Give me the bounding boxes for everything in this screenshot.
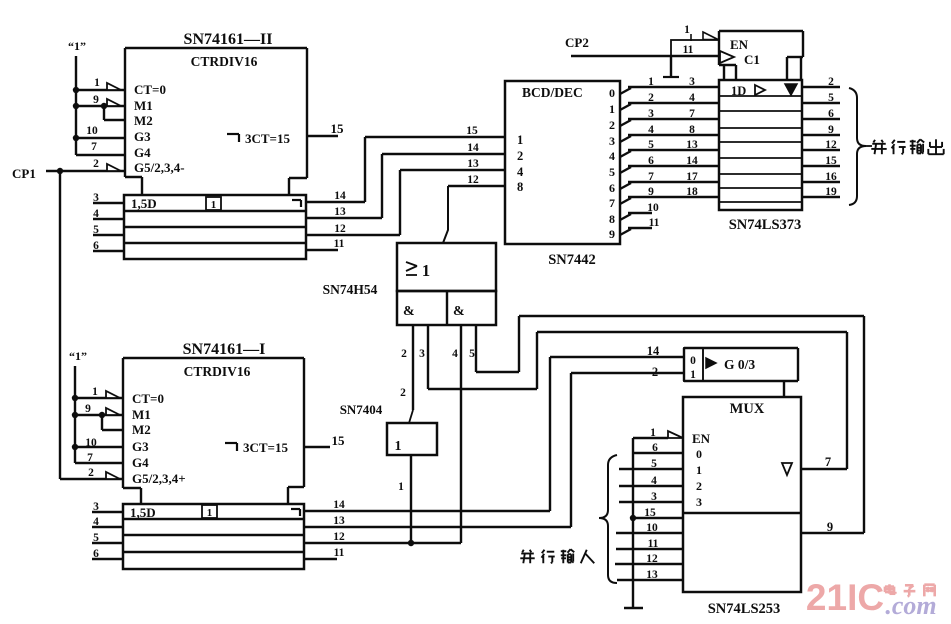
- svg-text:14: 14: [467, 142, 479, 154]
- svg-text:5: 5: [651, 458, 657, 470]
- svg-text:4: 4: [93, 208, 99, 220]
- svg-text:&: &: [453, 304, 465, 319]
- svg-text:6: 6: [93, 548, 99, 560]
- svg-text:3: 3: [648, 108, 654, 120]
- svg-text:11: 11: [683, 44, 694, 56]
- svg-text:“1”: “1”: [68, 39, 86, 53]
- svg-text:7: 7: [609, 196, 615, 210]
- svg-text:2: 2: [648, 92, 654, 104]
- svg-text:CT=0: CT=0: [134, 82, 166, 97]
- svg-text:12: 12: [646, 553, 658, 565]
- svg-text:M2: M2: [132, 422, 151, 437]
- svg-text:4: 4: [689, 92, 695, 104]
- svg-text:6: 6: [609, 181, 615, 195]
- svg-text:EN: EN: [692, 431, 711, 446]
- svg-text:3CT=15: 3CT=15: [245, 131, 290, 146]
- svg-text:18: 18: [686, 186, 698, 198]
- svg-text:6: 6: [648, 155, 654, 167]
- svg-text:1D: 1D: [731, 84, 746, 98]
- svg-text:2: 2: [609, 118, 615, 132]
- svg-text:2: 2: [93, 158, 99, 170]
- svg-text:CT=0: CT=0: [132, 391, 164, 406]
- svg-text:5: 5: [93, 224, 99, 236]
- svg-text:7: 7: [91, 141, 97, 153]
- svg-text:1: 1: [94, 77, 100, 89]
- svg-text:CTRDIV16: CTRDIV16: [191, 54, 258, 69]
- svg-text:9: 9: [85, 403, 91, 415]
- svg-text:8: 8: [517, 180, 523, 194]
- svg-text:.com: .com: [885, 591, 936, 620]
- svg-text:11: 11: [649, 217, 660, 229]
- svg-text:4: 4: [93, 516, 99, 528]
- svg-text:3: 3: [609, 134, 615, 148]
- svg-text:1: 1: [395, 439, 402, 454]
- svg-text:&: &: [403, 304, 415, 319]
- svg-text:17: 17: [686, 171, 698, 183]
- svg-text:15: 15: [644, 507, 656, 519]
- svg-text:5: 5: [93, 532, 99, 544]
- svg-text:1: 1: [422, 261, 430, 280]
- svg-text:G5/2,3,4+: G5/2,3,4+: [132, 471, 186, 486]
- svg-text:2: 2: [696, 479, 702, 493]
- svg-text:3: 3: [93, 501, 99, 513]
- svg-text:0: 0: [690, 355, 696, 367]
- svg-text:2: 2: [88, 467, 94, 479]
- svg-text:2: 2: [517, 149, 523, 163]
- svg-text:G4: G4: [134, 145, 151, 160]
- svg-text:14: 14: [333, 499, 345, 511]
- svg-text:5: 5: [828, 92, 834, 104]
- svg-text:1: 1: [684, 24, 690, 36]
- svg-text:13: 13: [334, 206, 346, 218]
- svg-text:4: 4: [517, 165, 524, 179]
- svg-text:5: 5: [648, 139, 654, 151]
- svg-text:3: 3: [689, 76, 695, 88]
- svg-text:7: 7: [825, 455, 831, 469]
- svg-text:SN74LS253: SN74LS253: [708, 601, 781, 617]
- svg-text:G4: G4: [132, 455, 149, 470]
- svg-text:8: 8: [609, 212, 615, 226]
- svg-text:4: 4: [452, 348, 458, 360]
- svg-text:10: 10: [646, 522, 658, 534]
- svg-text:14: 14: [647, 344, 660, 358]
- svg-text:1,5D: 1,5D: [131, 196, 157, 211]
- svg-text:1: 1: [517, 133, 523, 147]
- svg-text:1: 1: [211, 199, 217, 211]
- svg-text:C1: C1: [744, 52, 760, 67]
- svg-text:4: 4: [609, 149, 615, 163]
- svg-text:10: 10: [86, 125, 98, 137]
- svg-text:CTRDIV16: CTRDIV16: [184, 364, 251, 379]
- svg-text:5: 5: [609, 165, 615, 179]
- svg-text:EN: EN: [730, 37, 749, 52]
- svg-text:6: 6: [93, 240, 99, 252]
- svg-text:13: 13: [646, 569, 658, 581]
- svg-text:12: 12: [334, 223, 346, 235]
- svg-text:14: 14: [334, 190, 346, 202]
- svg-text:9: 9: [609, 227, 615, 241]
- svg-text:12: 12: [333, 531, 345, 543]
- svg-text:11: 11: [334, 238, 345, 250]
- svg-text:G3: G3: [132, 439, 149, 454]
- svg-text:2: 2: [828, 76, 834, 88]
- svg-text:10: 10: [647, 202, 659, 214]
- svg-text:CP1: CP1: [12, 166, 36, 181]
- svg-text:9: 9: [827, 520, 833, 534]
- svg-text:9: 9: [648, 186, 654, 198]
- svg-text:3CT=15: 3CT=15: [243, 440, 288, 455]
- svg-text:14: 14: [686, 155, 698, 167]
- svg-text:SN74161—II: SN74161—II: [184, 31, 273, 48]
- svg-text:10: 10: [85, 437, 97, 449]
- svg-text:8: 8: [689, 124, 695, 136]
- svg-text:0: 0: [609, 86, 615, 100]
- svg-text:9: 9: [828, 124, 834, 136]
- svg-text:15: 15: [825, 155, 837, 167]
- svg-text:1: 1: [690, 369, 696, 381]
- svg-text:11: 11: [334, 547, 345, 559]
- svg-text:1: 1: [609, 102, 615, 116]
- svg-text:1,5D: 1,5D: [130, 505, 156, 520]
- svg-text:3: 3: [93, 192, 99, 204]
- svg-text:13: 13: [467, 158, 479, 170]
- svg-text:12: 12: [825, 139, 837, 151]
- svg-text:2: 2: [652, 365, 658, 379]
- svg-text:SN74LS373: SN74LS373: [729, 217, 802, 233]
- svg-text:4: 4: [648, 124, 654, 136]
- svg-text:BCD/DEC: BCD/DEC: [522, 85, 583, 100]
- svg-text:3: 3: [651, 491, 657, 503]
- svg-text:6: 6: [652, 442, 658, 454]
- svg-text:11: 11: [648, 538, 659, 550]
- svg-text:15: 15: [332, 433, 346, 448]
- svg-text:3: 3: [419, 348, 425, 360]
- svg-text:CP2: CP2: [565, 35, 589, 50]
- svg-text:G 0/3: G 0/3: [724, 357, 755, 372]
- svg-text:21IC: 21IC: [806, 577, 884, 618]
- svg-text:M1: M1: [132, 407, 151, 422]
- svg-text:“1”: “1”: [69, 349, 87, 363]
- svg-text:1: 1: [696, 463, 702, 477]
- svg-text:13: 13: [333, 515, 345, 527]
- svg-text:13: 13: [686, 139, 698, 151]
- svg-text:M2: M2: [134, 113, 153, 128]
- svg-text:3: 3: [696, 495, 702, 509]
- svg-text:1: 1: [650, 427, 656, 439]
- svg-text:1: 1: [398, 481, 404, 493]
- svg-text:19: 19: [825, 186, 837, 198]
- svg-text:SN7404: SN7404: [340, 402, 383, 417]
- svg-text:G3: G3: [134, 129, 151, 144]
- svg-text:15: 15: [466, 125, 478, 137]
- svg-text:7: 7: [689, 108, 695, 120]
- svg-text:0: 0: [696, 447, 702, 461]
- svg-text:SN7442: SN7442: [548, 252, 596, 268]
- svg-text:MUX: MUX: [730, 401, 765, 417]
- svg-text:12: 12: [467, 174, 479, 186]
- svg-text:2: 2: [401, 348, 407, 360]
- svg-text:G5/2,3,4-: G5/2,3,4-: [134, 160, 185, 175]
- svg-text:M1: M1: [134, 98, 153, 113]
- svg-text:9: 9: [93, 94, 99, 106]
- svg-text:7: 7: [87, 452, 93, 464]
- svg-text:6: 6: [828, 108, 834, 120]
- svg-text:2: 2: [400, 387, 406, 399]
- svg-text:15: 15: [331, 121, 345, 136]
- svg-text:1: 1: [92, 386, 98, 398]
- svg-text:1: 1: [207, 507, 213, 519]
- svg-text:SN74161—I: SN74161—I: [183, 341, 266, 358]
- svg-text:16: 16: [825, 171, 837, 183]
- svg-text:1: 1: [648, 76, 654, 88]
- svg-text:4: 4: [651, 475, 657, 487]
- svg-text:SN74H54: SN74H54: [323, 282, 378, 297]
- svg-text:7: 7: [648, 171, 654, 183]
- svg-text:5: 5: [469, 348, 475, 360]
